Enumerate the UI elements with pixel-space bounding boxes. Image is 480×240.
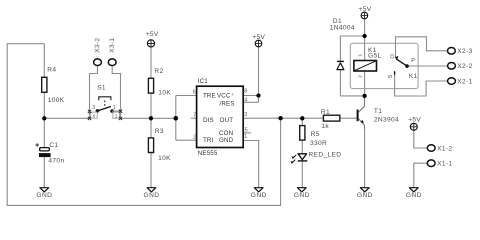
wire coil to collector junction	[364, 71, 366, 96]
svg-text:X1-1: X1-1	[437, 161, 452, 168]
supply +5V at X1	[408, 117, 421, 131]
svg-text:GND: GND	[143, 192, 159, 199]
ground below IC pin1	[251, 188, 267, 199]
svg-text:X3-1: X3-1	[109, 37, 116, 52]
svg-text:330R: 330R	[310, 140, 327, 147]
svg-text:/RES: /RES	[220, 100, 235, 107]
svg-text:T1: T1	[374, 108, 382, 115]
svg-text:GND: GND	[219, 137, 234, 144]
svg-text:NE555: NE555	[198, 150, 218, 157]
ground below C1	[36, 188, 52, 199]
wire feedback loop left/bottom	[7, 44, 280, 206]
svg-text:X2-3: X2-3	[457, 48, 472, 55]
wire T1 emitter to gnd	[364, 129, 366, 188]
svg-text:5: 5	[245, 127, 248, 133]
wire CON stub pin5	[243, 132, 251, 134]
ground below LED	[294, 188, 310, 199]
connector pad X2-3	[448, 48, 473, 56]
resistor R1	[321, 109, 340, 130]
svg-text:GND: GND	[251, 192, 267, 199]
wire VCC pin8 to +5V	[243, 47, 258, 103]
svg-text:470n: 470n	[48, 157, 64, 164]
relay contact K1	[388, 54, 418, 81]
wire LED to gnd	[301, 162, 303, 189]
wire relay O contact to X2-3	[396, 37, 448, 58]
supply +5V above R2	[146, 31, 159, 47]
svg-text:1k: 1k	[321, 123, 329, 130]
svg-text:IC1: IC1	[198, 78, 208, 85]
svg-text:X2-1: X2-1	[457, 78, 472, 85]
relay coil K1 G5L	[354, 47, 382, 78]
wire R1 to base	[340, 117, 358, 119]
svg-text:X3-2: X3-2	[94, 37, 101, 52]
svg-text:2N3904: 2N3904	[374, 116, 399, 123]
op-amp/timer IC1 NE555 box	[193, 78, 248, 157]
svg-text:R4: R4	[47, 67, 56, 74]
wire R2 bottom	[150, 93, 152, 118]
svg-text:+5V: +5V	[146, 31, 159, 38]
wire DIS stub pin7	[191, 117, 197, 119]
svg-text:R5: R5	[311, 131, 320, 138]
connector pad X3-1	[108, 37, 116, 65]
wire R5 to LED	[301, 140, 303, 154]
svg-text:C1: C1	[49, 142, 58, 149]
wire R5 branch	[301, 118, 303, 125]
wire C1 bottom to gnd	[43, 157, 45, 188]
resistor R5	[300, 126, 327, 148]
svg-text:1N4004: 1N4004	[330, 25, 355, 32]
svg-text:K1: K1	[409, 73, 418, 80]
svg-text:VCC: VCC	[217, 93, 231, 100]
resistor R2	[148, 68, 171, 97]
svg-text:10K: 10K	[158, 89, 171, 96]
ground below T1	[357, 188, 373, 199]
svg-text:3: 3	[244, 112, 247, 118]
svg-text:3: 3	[92, 105, 95, 111]
svg-text:2: 2	[193, 134, 196, 140]
svg-text:OUT: OUT	[220, 117, 234, 124]
svg-text:10K: 10K	[158, 155, 171, 162]
svg-text:1: 1	[357, 54, 363, 57]
relay frame K1	[350, 43, 418, 88]
transistor T1 2N3904	[357, 96, 400, 129]
connector pad X2-2	[448, 63, 473, 71]
svg-text:R2: R2	[154, 68, 163, 75]
supply +5V above relay	[359, 6, 372, 19]
connector pad X3-2	[94, 37, 102, 65]
svg-text:2: 2	[357, 75, 363, 78]
wire X1-1 to gnd	[414, 163, 427, 188]
wire TRE-TRI connector	[176, 96, 197, 141]
svg-text:8: 8	[244, 89, 247, 95]
wire R3 top	[150, 118, 152, 138]
connector pad X1-1	[427, 160, 452, 168]
wire R4 bottom	[43, 92, 45, 118]
svg-text:DIS: DIS	[203, 117, 214, 124]
svg-text:GND: GND	[36, 192, 52, 199]
wire C1 top	[43, 118, 45, 147]
node junction dots	[42, 116, 46, 120]
svg-text:GND: GND	[406, 192, 422, 199]
connector pad X2-1	[448, 78, 473, 86]
svg-text:TRE: TRE	[203, 93, 216, 100]
svg-text:TRI: TRI	[203, 137, 214, 144]
svg-text:RED_LED: RED_LED	[309, 151, 342, 158]
svg-text:R3: R3	[155, 128, 164, 135]
svg-text:4: 4	[244, 98, 247, 104]
wire X3 pads to switch	[90, 66, 121, 119]
svg-text:P: P	[411, 58, 415, 64]
svg-text:R1: R1	[321, 109, 330, 116]
ground below R3	[143, 188, 159, 199]
LED RED_LED	[290, 151, 341, 164]
wire D1 branch	[340, 36, 364, 96]
svg-text:O: O	[390, 54, 396, 59]
wire OUT pin3	[243, 117, 323, 119]
wire +5V to relay coil	[364, 19, 366, 61]
svg-text:G5L: G5L	[368, 52, 382, 59]
resistor R3	[148, 128, 171, 162]
wire relay P contact to X2-2	[407, 65, 448, 67]
supply +5V above IC	[252, 34, 265, 47]
svg-text:+: +	[231, 93, 234, 98]
svg-text:S1: S1	[97, 85, 106, 92]
svg-text:1: 1	[244, 134, 247, 140]
wire main node row	[44, 117, 176, 119]
wire relay S contact to X2-1	[395, 71, 448, 96]
capacitor C1	[35, 142, 64, 165]
svg-text:7: 7	[193, 112, 196, 118]
resistor R4	[42, 67, 65, 105]
wire R4 top	[43, 44, 45, 78]
svg-text:100K: 100K	[48, 97, 65, 104]
wire +5V to R2	[150, 47, 152, 78]
svg-text:S: S	[388, 75, 394, 79]
diode D1 1N4004	[330, 18, 355, 70]
svg-text:+5V: +5V	[408, 117, 421, 124]
wire R3 bottom to gnd	[150, 153, 152, 189]
svg-text:6: 6	[193, 90, 196, 96]
svg-text:X2-2: X2-2	[457, 63, 472, 70]
svg-text:GND: GND	[294, 192, 310, 199]
wire GND pin1	[243, 141, 259, 189]
svg-text:X1-2: X1-2	[437, 145, 452, 152]
wire +5V to X1-2	[414, 130, 427, 148]
svg-text:GND: GND	[357, 192, 373, 199]
ground below X1	[406, 188, 422, 199]
connector pad X1-2	[427, 145, 452, 153]
switch S1	[88, 85, 122, 121]
